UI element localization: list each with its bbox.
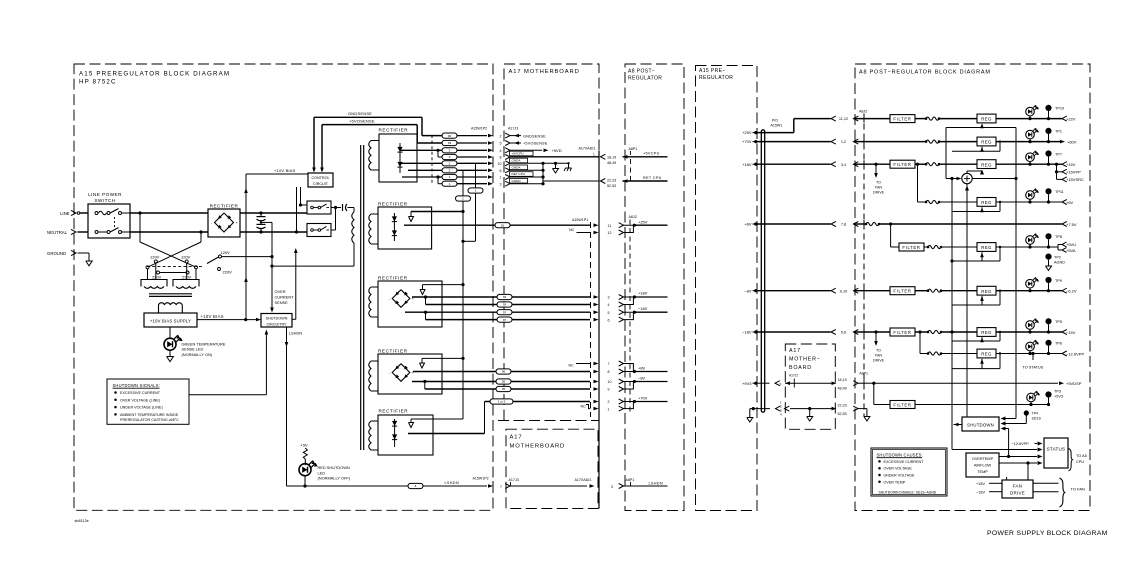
svg-text:A8P1: A8P1: [859, 372, 868, 376]
block SHUTDOWN: [962, 417, 999, 431]
output +5VU +5VA: [1058, 242, 1076, 253]
svg-text:96: 96: [502, 370, 506, 374]
svg-text:−18V: −18V: [976, 491, 985, 495]
net -8V (A8J2 10,9): [624, 376, 668, 390]
inductor L6: [915, 289, 977, 292]
svg-text:+70V: +70V: [742, 139, 752, 144]
svg-text:−12.6VPP: −12.6VPP: [1066, 351, 1084, 356]
label 220V left: [152, 274, 162, 279]
svg-text:+18V: +18V: [742, 162, 752, 167]
svg-text:TP6: TP6: [1055, 342, 1062, 346]
A17 motherboard (bottom middle) dashed border: [506, 429, 598, 508]
label +18V (A15 pre-reg): [742, 162, 757, 167]
svg-text:REG: REG: [981, 245, 992, 250]
svg-text:GNDD: GNDD: [512, 179, 522, 183]
inductor L2: [925, 140, 977, 143]
oval wire code LSHDN: [408, 483, 423, 488]
svg-text:+5VU: +5VU: [1066, 242, 1076, 247]
wire REG feedback loop y202: [952, 201, 1001, 212]
svg-text:4: 4: [500, 149, 502, 153]
svg-text:GREEN TEMPERATURE: GREEN TEMPERATURE: [182, 341, 226, 346]
regulator U1 REG +22V: [977, 114, 996, 123]
wire GNDA row extension: [510, 162, 570, 165]
wire bias box to green LED: [169, 327, 171, 338]
oval wire code rect1 row 2: [442, 133, 457, 138]
wire row 6 GNDA: [408, 169, 442, 171]
filter FL6: [890, 287, 915, 295]
inductor L3: [915, 163, 977, 166]
svg-text:PREREGULATOR CASTING ≥65°C: PREREGULATOR CASTING ≥65°C: [120, 418, 179, 422]
oval codes rect4: [496, 369, 511, 392]
wire -18V to A8: [756, 331, 831, 333]
svg-text:A17XA8J1: A17XA8J1: [579, 146, 596, 150]
node NEUTRAL input: [47, 229, 88, 235]
svg-text:(NORMALLY OFF): (NORMALLY OFF): [318, 475, 351, 480]
block STATUS: [1044, 438, 1068, 468]
label TO A8 CPU: [1076, 454, 1087, 464]
LED DS5 +15V: [1026, 151, 1039, 165]
branch to fan drive (row3): [874, 163, 878, 178]
testpoint TP3: [1045, 389, 1063, 404]
oval wire code on x475.5: [468, 188, 483, 193]
svg-text:REG: REG: [981, 117, 992, 122]
wire select diagonal A: [140, 242, 196, 267]
svg-text:A15W1: A15W1: [771, 124, 783, 128]
wire +8V row pin8: [413, 370, 599, 374]
wire +5VCPU to A8P1: [623, 155, 668, 159]
svg-text:sb8112e: sb8112e: [75, 519, 89, 523]
switch S2 voltage selector: [207, 250, 232, 274]
label +5VDSP: [1066, 381, 1082, 386]
wire sense bus x1016: [1015, 128, 1017, 419]
oval wire code rect1 row 4: [442, 148, 457, 153]
connector A15W1P1 line: [572, 218, 591, 417]
svg-text:RECTIFIER: RECTIFIER: [379, 128, 409, 133]
wire LSHDN to A8: [624, 485, 668, 487]
wire +18V to A8: [756, 163, 831, 165]
terminal circles 120V row: [154, 260, 188, 263]
wire -18V row pin5: [405, 310, 599, 314]
switch chopper B: [307, 224, 331, 237]
label 120V right: [181, 255, 191, 260]
transformer bias secondary winding: [159, 303, 183, 313]
ground symbol under green LED: [167, 357, 174, 362]
svg-text:A8P1: A8P1: [629, 147, 638, 151]
label A8P1 (top): [629, 147, 638, 155]
wire sense bus x952: [950, 179, 953, 450]
A15 preregulator assembly dashed border: [74, 64, 493, 510]
svg-text:97: 97: [503, 318, 507, 322]
pin 8 A15W1P1/A8J2: [608, 369, 624, 374]
label P/O A15W1: [771, 119, 783, 128]
wire summing node to x1016: [972, 177, 1017, 180]
pin 3 A15W1P1/A8J2: [608, 295, 624, 300]
svg-text:RECTIFIER: RECTIFIER: [379, 409, 409, 414]
tick A8J2: [863, 287, 865, 295]
tick A8J2: [863, 220, 865, 228]
output +15VSRC: [1062, 177, 1084, 182]
connector pins 1,2 into A8: [831, 139, 858, 144]
svg-text:90: 90: [448, 134, 452, 138]
oval wire code rect1 row 10: [442, 161, 457, 166]
block FAN DRIVE: [1002, 480, 1033, 498]
connector A8P1 dashes (top): [630, 159, 632, 184]
rectifier 4 secondary winding: [369, 361, 378, 391]
cable boundary dashes rect1: [431, 135, 433, 184]
note box SHUTDOWN SIGNALS: [107, 379, 189, 424]
svg-text:220V: 220V: [223, 270, 233, 275]
pin 3 A17J3: [500, 181, 511, 186]
svg-text:BOARD: BOARD: [789, 365, 812, 371]
svg-text:FILTER: FILTER: [893, 162, 911, 167]
label +5V (red LED): [301, 442, 309, 447]
oval wire code rect1 row 8: [442, 154, 457, 159]
svg-text:FILTER: FILTER: [893, 289, 911, 294]
label 220V right: [182, 274, 192, 279]
pin 6 A17J3: [500, 168, 511, 173]
svg-text:REGULATOR: REGULATOR: [628, 75, 662, 81]
svg-text:3,4: 3,4: [841, 163, 846, 167]
svg-text:A17J3: A17J3: [508, 127, 518, 131]
wire +5VOSENSE stub + arrow: [510, 141, 521, 145]
label A8J2 (middle): [629, 215, 637, 219]
svg-text:TO FAN: TO FAN: [1071, 487, 1085, 492]
testpoint TP1: [1045, 128, 1062, 142]
oval wire code rect1 row 3: [442, 181, 457, 186]
caption POWER SUPPLY BLOCK DIAGRAM: [987, 530, 1108, 537]
svg-text:LINE POWER: LINE POWER: [88, 192, 122, 197]
label A15W1P2 (top): [471, 127, 487, 131]
pin 6 A15W1P1/A8J2: [608, 317, 624, 322]
svg-text:3: 3: [608, 296, 610, 300]
svg-text:CURRENT: CURRENT: [275, 295, 295, 300]
net -18V (A8J2 5,6): [624, 306, 668, 319]
wire +5V branch down: [891, 224, 899, 247]
svg-text:FAN: FAN: [875, 354, 882, 358]
rectifier 2 diodes: [392, 213, 397, 241]
LED DS3 +22V: [1026, 105, 1039, 119]
svg-text:18,19: 18,19: [838, 378, 847, 382]
wire row 1 GNDD: [402, 175, 442, 178]
wire FAN DRIVE outputs: [1033, 483, 1059, 491]
wire sense branch x475.5: [461, 163, 475, 243]
svg-text:10: 10: [608, 380, 612, 384]
label A17J3 (bottom): [509, 478, 519, 486]
svg-text:RECTIFIER: RECTIFIER: [378, 348, 408, 353]
wire rect1 row pin 10 to A15W1P2: [457, 162, 493, 166]
wire SHUTDOWN input 1: [1001, 417, 1017, 421]
svg-text:52,53: 52,53: [607, 184, 616, 188]
svg-text:(NORMALLY ON): (NORMALLY ON): [182, 352, 213, 357]
block OVERTEMP AIRFLOW TEMP: [966, 453, 999, 477]
wire rect1 row pin 3 to A15W1P2: [457, 182, 493, 186]
wire -18V row input: [857, 331, 890, 333]
pin 11 A15W1P1/A8J2: [608, 223, 624, 228]
transformer T1 core (bias): [149, 294, 192, 297]
regulator U5 REG +5V: [977, 243, 996, 252]
wire +10V bias rail x=246: [244, 174, 248, 320]
connector pins 7,8 into A8: [831, 222, 858, 227]
svg-text:+10V BIAS SUPPLY: +10V BIAS SUPPLY: [150, 318, 191, 323]
wire cable-bottom row: [750, 400, 832, 416]
pin 8 A17J3: [500, 155, 511, 160]
label A17J3 (top): [508, 127, 518, 131]
connector A17XA8J1 line: [593, 151, 599, 509]
svg-text:10: 10: [498, 162, 502, 166]
A17 motherboard (upper) dashed border: [498, 64, 599, 421]
oval wire code rect1 row 1: [442, 174, 457, 179]
transformer T2 primary winding: [352, 212, 354, 243]
wire rect2 sense to common: [411, 211, 463, 213]
wire +5VOSENSE: [320, 125, 417, 173]
regulator U2 REG +60V: [977, 137, 996, 146]
svg-text:TP10: TP10: [1055, 107, 1064, 111]
svg-text:TP7: TP7: [1055, 152, 1062, 156]
svg-text:REG: REG: [981, 289, 992, 294]
inductor L1: [915, 117, 977, 120]
svg-text:A17J3: A17J3: [509, 478, 519, 482]
wire xfmr select right drop: [200, 232, 202, 242]
summing node (+): [962, 173, 972, 183]
svg-text:SENSE: SENSE: [275, 300, 289, 305]
testpoint TP4 SD1S: [1024, 410, 1042, 420]
label +10V BIAS (control): [274, 168, 296, 173]
wire +5VOSENSE corner to row: [417, 125, 442, 143]
wire +70V to A8: [756, 141, 831, 143]
svg-text:7,8: 7,8: [841, 223, 846, 227]
wire GNDD to A17XA8J1: [543, 180, 599, 182]
svg-text:OVER VOLTAGE: OVER VOLTAGE: [884, 467, 913, 471]
svg-text:−18V: −18V: [638, 306, 648, 311]
wire +5V output: [996, 245, 1058, 248]
svg-text:+5VD: +5VD: [552, 148, 562, 153]
regulator U8 REG -12.6VPP: [977, 349, 996, 358]
svg-text:+15VSRC: +15VSRC: [1066, 177, 1084, 182]
pin 12 A15W1P1/A8J2: [608, 230, 624, 235]
wire NC to pin7: [569, 362, 599, 368]
label TO FAN: [1071, 487, 1085, 492]
output +15VPP: [1062, 169, 1081, 174]
rectifier 2 (+25V section) box: [378, 201, 432, 249]
wire -8V row pin10: [412, 380, 599, 384]
wire rectifier common sense bus x463: [462, 170, 464, 419]
wire +9V3 to A17J2: [756, 381, 832, 387]
wire +70V output row: [408, 402, 485, 434]
junction selector sense: [270, 255, 273, 258]
label GREEN TEMPERATURE SENSE LED: [182, 341, 226, 357]
inductor L8: [927, 352, 977, 355]
switch S1 LINE POWER SWITCH: [88, 192, 130, 238]
label RED SHUTDOWN LED: [318, 465, 351, 480]
wire +22V output: [996, 117, 1062, 120]
svg-text:CIRCUITRY: CIRCUITRY: [266, 322, 287, 326]
note box SHUTDOWN CAUSES: [871, 448, 947, 496]
wire terminal stubs to windings: [148, 263, 197, 280]
label -12.6VPP (status input): [1012, 442, 1043, 446]
capacitor C1 C2 (bus filter pair): [257, 211, 266, 233]
title A17 (bottom middle box): [510, 435, 566, 450]
wire +8V to A8: [756, 223, 831, 225]
svg-text:REG: REG: [981, 140, 992, 145]
LED DS2 red shutdown: [299, 460, 318, 475]
pin 1 A17J3: [500, 175, 511, 180]
oval wire code 91: [495, 223, 510, 228]
svg-text:91: 91: [501, 223, 505, 227]
wire +10V BIAS to shutdown circuitry: [197, 318, 261, 322]
svg-text:5,6: 5,6: [841, 331, 846, 335]
svg-text:6: 6: [500, 169, 502, 173]
svg-text:+8V: +8V: [744, 222, 752, 227]
LED DS4 +60V: [1026, 128, 1039, 142]
cable W1 bundle: [761, 130, 764, 412]
filter FL7: [890, 328, 915, 336]
svg-text:8: 8: [608, 370, 610, 374]
wire +6V output: [996, 200, 1062, 203]
wire rect5 sense to common: [411, 418, 463, 420]
svg-text:220V: 220V: [152, 274, 162, 279]
branch to fan drive (row7): [874, 330, 878, 346]
svg-text:97: 97: [503, 310, 507, 314]
title A15 PREREGULATOR BLOCK DIAGRAM: [79, 71, 230, 86]
wire GNDSENSE: [312, 117, 422, 172]
regulator U7 REG -15V: [977, 328, 996, 337]
LED DS11 +5V3: [1027, 391, 1040, 405]
svg-text:120V: 120V: [181, 255, 191, 260]
svg-text:TO: TO: [876, 349, 881, 353]
svg-text:1 or 2: 1 or 2: [498, 400, 506, 404]
svg-text:SWITCH: SWITCH: [94, 198, 115, 203]
wire -12.6VPP branch: [920, 332, 928, 354]
rectifier 1 diodes: [397, 143, 402, 173]
svg-text:REG: REG: [981, 352, 992, 357]
wire REG feedback loop y290.7: [952, 290, 1001, 306]
label TO FAN DRIVE (lower): [873, 349, 885, 363]
wire LSHDN across A17: [510, 484, 595, 488]
net +8V (A8J2 7,8): [624, 364, 668, 374]
A8 post-regulator strip dashed border: [625, 64, 684, 511]
label A8P1 (right block): [859, 372, 868, 385]
svg-text:LINE: LINE: [60, 211, 70, 216]
wire RET CPU to A8P1: [623, 179, 668, 183]
junction GNDA bus: [541, 162, 544, 186]
wire rect1 row pin 6 to A15W1P2: [457, 169, 493, 173]
svg-text:+6V: +6V: [1066, 200, 1074, 205]
svg-text:95: 95: [502, 387, 506, 391]
LED DS6 +6V: [1026, 188, 1039, 202]
svg-text:A8P1: A8P1: [626, 478, 635, 482]
svg-text:A8J2: A8J2: [629, 215, 637, 219]
wire REG feedback loop y247: [952, 246, 1001, 261]
wire TO STATUS stub: [1032, 354, 1034, 361]
svg-text:5: 5: [608, 311, 610, 315]
svg-text:P/O: P/O: [772, 119, 778, 123]
svg-text:9: 9: [608, 388, 610, 392]
rectifier 4 sense arrow: [420, 358, 425, 368]
block +10V BIAS SUPPLY: [144, 313, 197, 327]
svg-text:SHUTDOWN: SHUTDOWN: [967, 423, 994, 428]
LED DS9 -15V: [1026, 318, 1039, 332]
transformer T2 core: [361, 145, 364, 450]
svg-text:3: 3: [611, 485, 613, 489]
regulator U6 REG -6.2V: [977, 286, 996, 295]
wire +5VDSP row: [872, 381, 1064, 385]
svg-text:+5VOSENSE: +5VOSENSE: [523, 142, 548, 146]
svg-text:A15 PREREGULATOR BLOCK DIAGRAM: A15 PREREGULATOR BLOCK DIAGRAM: [79, 71, 230, 78]
wire +23V row input: [857, 118, 890, 120]
wire +18V row pin3: [412, 295, 599, 299]
svg-text:A17 MOTHERBOARD: A17 MOTHERBOARD: [509, 69, 580, 75]
svg-text:SHUTDOWN DISABLE: SD1S−AGND: SHUTDOWN DISABLE: SD1S−AGND: [879, 490, 937, 494]
wire select diagonal B: [148, 242, 202, 267]
ground symbol (chassis) on GNDA: [564, 163, 572, 171]
svg-text:12: 12: [608, 231, 612, 235]
net label box +5VCPU: [510, 151, 534, 156]
wire row 8 branch: [438, 150, 442, 157]
ground symbol in A17 small box: [807, 409, 813, 421]
wire +5V3 branch: [874, 383, 890, 404]
testpoint TP7: [1045, 150, 1062, 164]
junction LINE at x=140: [138, 211, 141, 214]
svg-text:+15V: +15V: [1066, 162, 1076, 167]
wire +15V output: [996, 163, 1062, 166]
rectifier 4 bridge: [389, 364, 415, 382]
wire +70V to pin2: [485, 400, 599, 404]
svg-text:REG: REG: [981, 200, 992, 205]
pin 4 A15W1P1/A8J2: [608, 302, 624, 307]
svg-text:5: 5: [500, 142, 502, 146]
rectifier 2 secondary winding: [369, 214, 378, 244]
pin 5 A15W1P1/A8J2: [608, 310, 624, 315]
connector pins 3,4 into A8: [831, 162, 858, 167]
tick A8J2: [863, 115, 865, 123]
inductor L7: [915, 330, 977, 333]
svg-text:CPU: CPU: [1076, 460, 1084, 464]
svg-text:+10V BIAS: +10V BIAS: [201, 314, 224, 319]
pin 22,23 52,53 A17XA8J1: [601, 178, 617, 188]
svg-text:OVER VOLTAGE (LINE): OVER VOLTAGE (LINE): [120, 398, 160, 402]
svg-text:22,23: 22,23: [607, 178, 616, 182]
svg-text:FILTER: FILTER: [893, 403, 911, 408]
svg-text:A15 PRE−: A15 PRE−: [699, 68, 726, 74]
svg-text:+7.5V: +7.5V: [1066, 222, 1077, 227]
svg-text:GNDSENSE: GNDSENSE: [523, 134, 546, 138]
label −8V (A15 pre-reg): [744, 288, 757, 293]
wire REG feedback loop y332: [952, 331, 1001, 342]
net +25V (A8J2 11,12): [624, 220, 668, 233]
svg-text:+10V BIAS: +10V BIAS: [274, 168, 296, 173]
oval wire code rect1 row 5: [442, 140, 457, 145]
tick A8J2: [863, 138, 865, 146]
svg-text:+60V: +60V: [1067, 139, 1077, 144]
wire +9V3 across A17 to A8P1: [832, 378, 874, 390]
rectifier 2 sense arrow: [409, 212, 414, 222]
filter FL1: [890, 115, 915, 123]
rectifier CR1 (main bridge): [208, 203, 240, 237]
wire rect3 sense to common: [423, 283, 465, 286]
testpoint TP10: [1045, 105, 1064, 119]
pin 5 A17J3: [500, 141, 511, 146]
svg-text:+22V: +22V: [1066, 116, 1076, 121]
wire row 10 GNDA: [400, 162, 442, 164]
svg-text:NC: NC: [569, 228, 575, 232]
wire chopper A to coupling cap: [331, 206, 341, 209]
wire +15VPP branch: [1055, 164, 1062, 179]
svg-text:93: 93: [503, 295, 507, 299]
svg-text:TP5: TP5: [1055, 320, 1062, 324]
wire NC to pin1: [581, 404, 599, 410]
svg-text:+5V3: +5V3: [1054, 395, 1063, 399]
svg-text:52,53: 52,53: [838, 412, 847, 416]
